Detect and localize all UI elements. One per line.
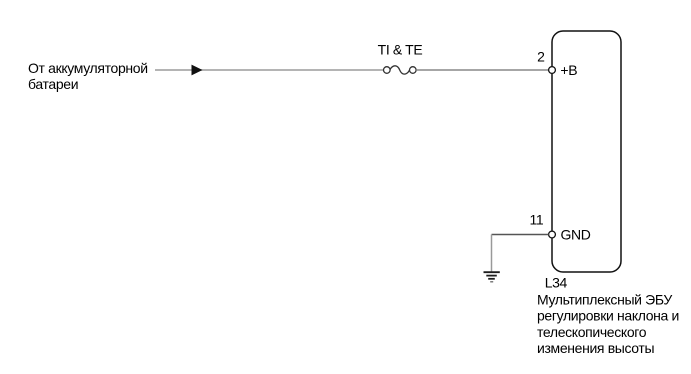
svg-text:L34: L34	[545, 275, 568, 291]
svg-text:11: 11	[529, 212, 543, 228]
node: From battery label	[28, 60, 148, 92]
ECU box L34	[552, 31, 621, 272]
arrow current direction	[192, 65, 203, 76]
svg-text:регулировки наклона и: регулировки наклона и	[537, 308, 679, 324]
wire battery to fuse	[155, 69, 384, 71]
svg-text:GND: GND	[561, 226, 591, 242]
svg-text:батареи: батареи	[28, 76, 78, 92]
svg-text:+B: +B	[560, 62, 577, 78]
pin 11 terminal	[549, 231, 556, 238]
svg-text:2: 2	[537, 48, 545, 64]
svg-text:телескопического: телескопического	[537, 324, 647, 340]
pin 2 terminal	[549, 67, 556, 74]
svg-text:изменения высоты: изменения высоты	[537, 340, 654, 356]
wire fuse to pin 2	[416, 69, 549, 71]
node: ECU description label	[537, 292, 679, 357]
svg-text:Мультиплексный ЭБУ: Мультиплексный ЭБУ	[537, 292, 672, 308]
svg-text:От аккумуляторной: От аккумуляторной	[28, 60, 148, 76]
wire down to ground	[491, 235, 493, 272]
svg-text:TI & TE: TI & TE	[378, 42, 423, 58]
fuse TI & TE	[384, 66, 417, 74]
wire pin 11 to ground, horizontal	[492, 234, 549, 236]
ground symbol	[484, 272, 500, 282]
